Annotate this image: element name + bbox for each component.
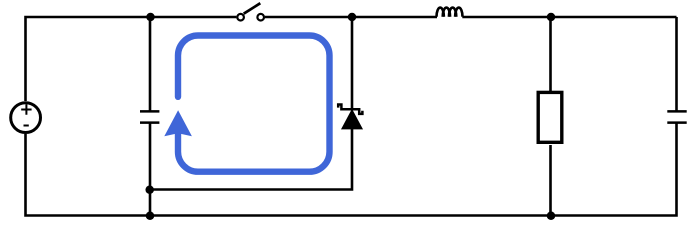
wire capacitor C1 branch [149, 17, 152, 216]
D1 schottky cathode bar [338, 105, 362, 114]
C1 bottom plate [140, 121, 159, 124]
capacitor C1 [140, 111, 159, 122]
voltage source V1 [11, 103, 41, 133]
wire right capacitor top lead [675, 17, 678, 111]
wire diode branch [150, 17, 352, 190]
loop arrowhead [164, 110, 192, 136]
node top of diode [348, 13, 357, 22]
current loop arrow (blue) [164, 36, 329, 172]
plus mark [21, 104, 31, 114]
source circle [11, 103, 41, 133]
C2 bottom plate [667, 121, 686, 124]
wire top-right: inductor to right edge [462, 16, 676, 19]
wire bottom rail [26, 123, 677, 216]
node diode return [145, 185, 154, 194]
switch right contact [257, 14, 264, 21]
wire resistor branch [549, 17, 552, 216]
node bottom of resistor [547, 211, 556, 220]
switch lever [244, 3, 261, 14]
switch SW1 [237, 3, 264, 20]
wire top-left: source top to switch [26, 17, 237, 101]
minus mark [24, 125, 29, 127]
diode D1 (schottky) [338, 105, 362, 129]
wire top-mid: switch to inductor [265, 16, 437, 19]
inductor L1 [437, 8, 463, 17]
C2 top plate [667, 110, 686, 113]
D1 anode triangle [342, 110, 362, 129]
C1 top plate [140, 110, 159, 113]
node top of resistor [547, 13, 556, 22]
node top of C1 [146, 13, 155, 22]
loop stroke [178, 36, 330, 172]
node bottom of C1 [146, 211, 155, 220]
switch left contact [237, 14, 244, 21]
resistor R1 [538, 92, 562, 142]
capacitor C2 [667, 111, 686, 122]
